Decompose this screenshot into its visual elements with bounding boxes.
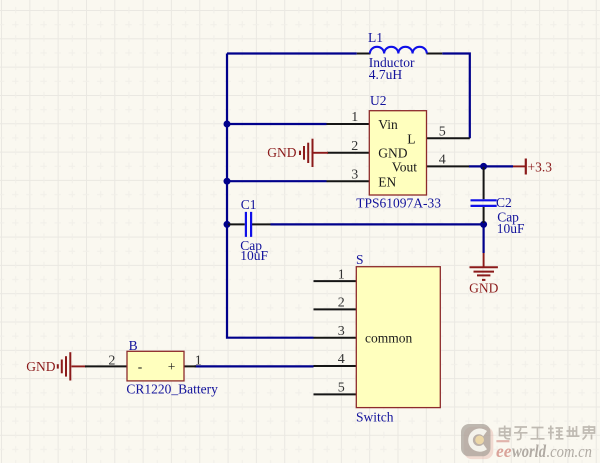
inductor L1 [370,47,427,54]
switch S pin 5 [314,393,357,395]
inductor L1 pins [357,53,442,55]
ground symbol below C2 [470,253,498,280]
U2 pin 2 [327,152,369,154]
switch S body [356,267,440,408]
svg-text:Vin: Vin [378,117,398,132]
capacitor C2 [471,200,497,206]
svg-text:TPS61097A-33: TPS61097A-33 [356,196,441,211]
svg-text:10uF: 10uF [240,248,268,263]
svg-text:S: S [356,252,364,267]
capacitor C1 pins [228,223,271,225]
svg-text:4.7uH: 4.7uH [369,67,403,82]
wire: top wire from trunk to inductor [227,52,357,54]
svg-text:1: 1 [195,354,202,369]
U2 pin 3 [327,180,370,182]
svg-text:+: + [168,359,176,374]
node: junction C1 wire / C2 bottom [480,221,487,228]
svg-text:EN: EN [378,174,396,189]
capacitor C1 [246,212,251,237]
svg-text:4: 4 [439,153,446,168]
svg-text:1: 1 [351,110,358,125]
ground symbol at battery pin 2 [58,352,86,380]
svg-text:2: 2 [338,296,345,311]
U2 pin 1 [327,123,370,125]
battery B pins [85,365,196,367]
node: junction trunk / U2 pin3 [224,178,231,185]
battery B body CR1220 [127,351,184,381]
wire: battery pin 1 to switch pin 4 [195,365,314,367]
wire: trunk to U2 pin 3 [227,180,327,182]
power port +3.3 [513,159,526,175]
svg-text:ee: ee [496,441,512,461]
switch S pin 1 [314,280,357,282]
node: junction trunk / C1 [224,221,231,228]
svg-text:3: 3 [338,324,345,339]
svg-text:C2: C2 [496,195,512,210]
wire: inductor right to pin 5 of U2 [442,54,470,139]
svg-text:Switch: Switch [356,410,394,425]
svg-text:5: 5 [439,124,446,139]
svg-text:+3.3: +3.3 [528,160,553,175]
node: junction trunk / U2 pin1 [224,121,231,128]
svg-text:GND: GND [378,146,407,161]
U2 pin 5 [427,137,470,139]
svg-text:L1: L1 [368,30,383,45]
wire: trunk to U2 pin 1 [227,123,327,125]
svg-text:4: 4 [338,352,345,367]
svg-text:1: 1 [338,267,345,282]
op-amp U2 body TPS61097A-33 [369,111,426,195]
wire: U2 pin 4 to +3.3 node [469,165,513,167]
svg-text:B: B [129,338,138,353]
svg-text:5: 5 [338,381,345,396]
svg-text:U2: U2 [370,93,387,108]
svg-text:2: 2 [108,354,115,369]
svg-text:world: world [512,441,546,461]
svg-text:.com.cn: .com.cn [547,442,593,461]
ground symbol at U2 pin 2 [300,139,328,167]
svg-text:GND: GND [26,359,55,374]
watermark eeworld [461,424,595,461]
svg-text:3: 3 [351,167,358,182]
U2 pin 4 [427,165,470,167]
svg-text:GND: GND [267,145,296,160]
svg-text:L: L [407,132,415,147]
svg-text:common: common [365,331,412,346]
wire: C2 bottom node down to GND [483,224,485,253]
svg-text:GND: GND [469,281,498,296]
svg-text:C1: C1 [241,197,257,212]
svg-text:2: 2 [351,139,358,154]
switch S pin 4 [314,365,357,367]
node: junction U2 pin4 / C2 / +3.3 [480,163,487,170]
wire: left vertical trunk down to switch pin 3 [227,54,314,338]
svg-text:CR1220_Battery: CR1220_Battery [126,382,218,397]
capacitor C2 pins [483,167,485,223]
switch S pin 3 [314,337,357,339]
switch S pin 2 [314,308,357,310]
wire: C1 right plate to C2 bottom node [271,223,484,225]
svg-text:Vout: Vout [392,159,418,174]
svg-text:-: - [138,359,143,374]
svg-text:10uF: 10uF [497,221,525,236]
